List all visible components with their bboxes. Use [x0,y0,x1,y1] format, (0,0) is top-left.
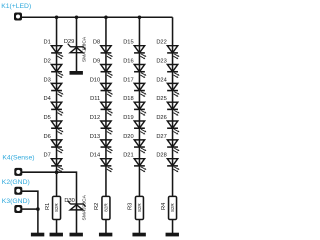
svg-text:D6: D6 [43,134,50,140]
svg-text:D13: D13 [90,134,100,140]
svg-text:D28: D28 [156,153,166,159]
svg-text:D26: D26 [156,115,166,121]
svg-text:D12: D12 [90,115,100,121]
svg-text:D18: D18 [123,96,133,102]
svg-text:D14: D14 [90,153,100,159]
svg-text:D23: D23 [156,59,166,65]
svg-text:D11: D11 [90,96,100,102]
svg-text:D10: D10 [90,77,100,83]
svg-text:D1: D1 [43,40,50,46]
svg-text:D17: D17 [123,77,133,83]
svg-text:D7: D7 [43,153,50,159]
svg-text:R1: R1 [45,203,51,210]
svg-text:D3: D3 [43,77,50,83]
svg-text:82R: 82R [137,203,142,212]
svg-text:R4: R4 [161,203,167,210]
svg-text:K4(Sense): K4(Sense) [2,155,34,162]
svg-text:D22: D22 [156,40,166,46]
svg-text:D5: D5 [43,115,50,121]
svg-text:82R: 82R [103,203,108,212]
svg-text:D9: D9 [93,59,100,65]
svg-text:K1(+LED): K1(+LED) [1,3,31,10]
svg-text:SMAJ28CA: SMAJ28CA [82,194,88,220]
svg-text:D16: D16 [123,59,133,65]
svg-text:D15: D15 [123,40,133,46]
svg-text:D29: D29 [64,39,74,45]
svg-text:D8: D8 [93,40,100,46]
svg-text:82R: 82R [170,203,175,212]
svg-text:K3(GND): K3(GND) [2,198,30,205]
svg-text:K2(GND): K2(GND) [2,179,30,186]
svg-text:R2: R2 [94,203,100,210]
svg-text:82R: 82R [54,203,59,212]
svg-text:D4: D4 [43,96,50,102]
svg-text:D19: D19 [123,115,133,121]
svg-text:D24: D24 [156,77,166,83]
svg-text:D25: D25 [156,96,166,102]
svg-text:R3: R3 [128,203,134,210]
svg-text:D2: D2 [43,59,50,65]
svg-text:D21: D21 [123,153,133,159]
svg-text:SMAJ28CA: SMAJ28CA [81,36,87,62]
svg-text:D27: D27 [156,134,166,140]
svg-text:D20: D20 [123,134,133,140]
svg-text:D30: D30 [64,198,74,204]
